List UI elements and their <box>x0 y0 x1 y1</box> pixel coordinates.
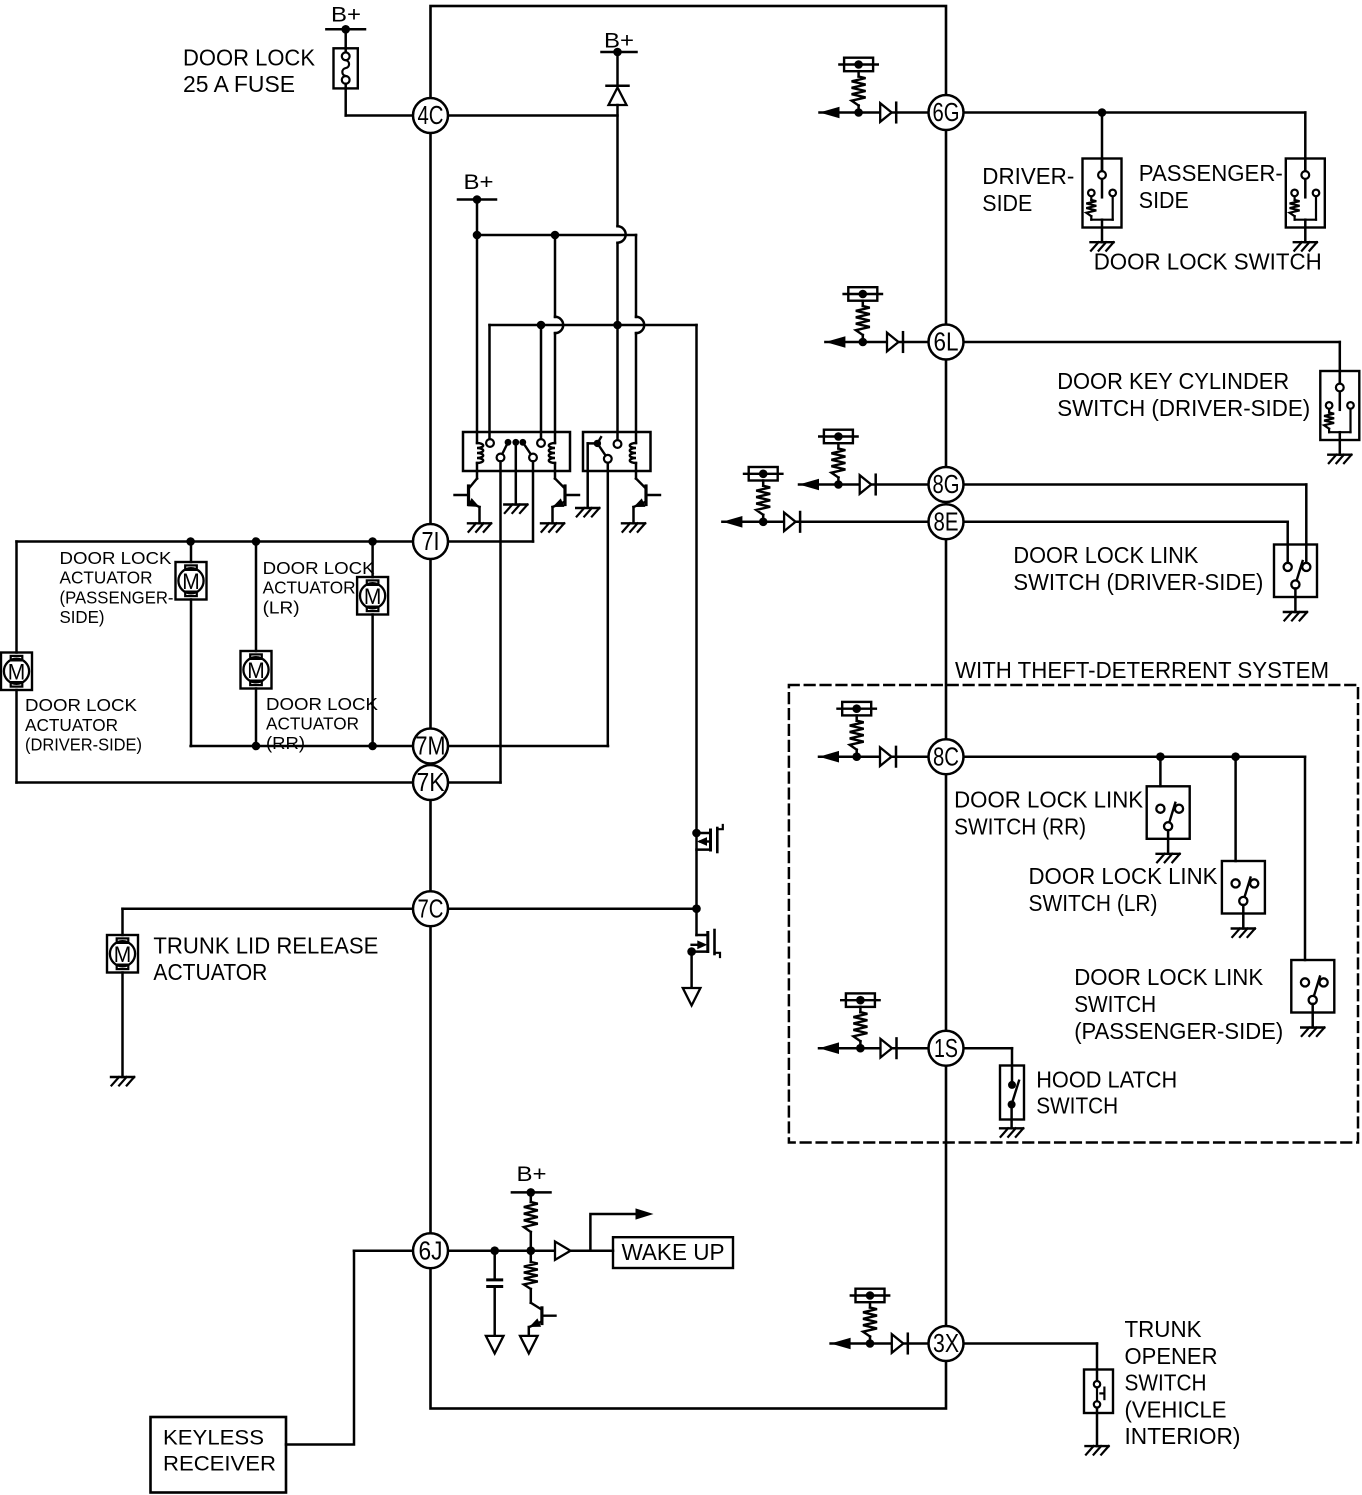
svg-text:ACTUATOR: ACTUATOR <box>153 959 267 985</box>
svg-text:M: M <box>182 569 200 594</box>
svg-text:DOOR LOCK: DOOR LOCK <box>60 548 172 568</box>
svg-text:SIDE: SIDE <box>1139 187 1189 213</box>
svg-text:TRUNK: TRUNK <box>1125 1316 1202 1342</box>
svg-text:DRIVER-: DRIVER- <box>982 163 1074 189</box>
svg-text:SWITCH: SWITCH <box>1125 1370 1207 1396</box>
svg-text:ACTUATOR: ACTUATOR <box>60 568 153 588</box>
svg-text:7M: 7M <box>416 731 446 761</box>
svg-text:INTERIOR): INTERIOR) <box>1125 1423 1241 1449</box>
svg-text:SIDE: SIDE <box>982 190 1032 216</box>
svg-text:DOOR LOCK: DOOR LOCK <box>25 695 137 715</box>
svg-text:25 A FUSE: 25 A FUSE <box>183 71 295 97</box>
svg-text:(DRIVER-SIDE): (DRIVER-SIDE) <box>25 735 142 755</box>
svg-text:DOOR LOCK LINK: DOOR LOCK LINK <box>1029 863 1218 889</box>
svg-text:SWITCH: SWITCH <box>1074 991 1156 1017</box>
svg-text:8G: 8G <box>933 469 960 499</box>
svg-text:M: M <box>364 584 382 609</box>
svg-text:ACTUATOR: ACTUATOR <box>25 715 118 735</box>
svg-text:SWITCH: SWITCH <box>1036 1093 1118 1119</box>
svg-text:(PASSENGER-: (PASSENGER- <box>60 587 174 607</box>
svg-text:1S: 1S <box>934 1033 958 1063</box>
svg-text:SWITCH (DRIVER-SIDE): SWITCH (DRIVER-SIDE) <box>1013 569 1263 595</box>
svg-text:WITH THEFT-DETERRENT SYSTEM: WITH THEFT-DETERRENT SYSTEM <box>955 657 1329 683</box>
svg-text:DOOR KEY CYLINDER: DOOR KEY CYLINDER <box>1057 368 1289 394</box>
svg-text:KEYLESS: KEYLESS <box>163 1427 264 1450</box>
svg-text:WAKE UP: WAKE UP <box>622 1239 725 1265</box>
svg-text:SWITCH (LR): SWITCH (LR) <box>1029 890 1158 916</box>
svg-text:(RR): (RR) <box>266 733 305 753</box>
svg-text:M: M <box>114 942 132 967</box>
svg-text:3X: 3X <box>933 1328 959 1358</box>
svg-text:ACTUATOR: ACTUATOR <box>263 578 356 598</box>
svg-text:8C: 8C <box>933 741 959 771</box>
svg-text:HOOD LATCH: HOOD LATCH <box>1036 1067 1177 1093</box>
svg-text:DOOR LOCK LINK: DOOR LOCK LINK <box>1013 542 1198 568</box>
svg-text:6J: 6J <box>419 1235 443 1265</box>
svg-text:6G: 6G <box>933 97 960 127</box>
svg-text:DOOR LOCK LINK: DOOR LOCK LINK <box>954 787 1143 813</box>
svg-text:RECEIVER: RECEIVER <box>163 1453 276 1476</box>
svg-text:SWITCH (DRIVER-SIDE): SWITCH (DRIVER-SIDE) <box>1057 395 1310 421</box>
svg-text:PASSENGER-: PASSENGER- <box>1139 160 1283 186</box>
svg-text:B+: B+ <box>517 1163 547 1186</box>
svg-text:7K: 7K <box>417 767 446 797</box>
svg-text:DOOR LOCK: DOOR LOCK <box>266 694 378 714</box>
svg-text:(LR): (LR) <box>263 597 300 617</box>
svg-text:SWITCH (RR): SWITCH (RR) <box>954 814 1086 840</box>
svg-text:DOOR LOCK SWITCH: DOOR LOCK SWITCH <box>1094 249 1322 275</box>
svg-text:DOOR LOCK: DOOR LOCK <box>183 45 315 71</box>
svg-text:OPENER: OPENER <box>1125 1343 1218 1369</box>
svg-text:B+: B+ <box>464 171 494 194</box>
svg-text:M: M <box>8 659 26 684</box>
svg-text:DOOR LOCK LINK: DOOR LOCK LINK <box>1074 964 1263 990</box>
svg-text:ACTUATOR: ACTUATOR <box>266 714 359 734</box>
svg-text:6L: 6L <box>934 327 959 357</box>
svg-text:7I: 7I <box>422 526 440 556</box>
svg-text:7C: 7C <box>418 893 444 923</box>
svg-text:TRUNK LID RELEASE: TRUNK LID RELEASE <box>153 933 378 959</box>
svg-text:M: M <box>247 658 265 683</box>
svg-text:(PASSENGER-SIDE): (PASSENGER-SIDE) <box>1074 1018 1283 1044</box>
svg-text:B+: B+ <box>331 4 361 27</box>
svg-text:SIDE): SIDE) <box>60 607 105 627</box>
svg-text:(VEHICLE: (VEHICLE <box>1125 1396 1227 1422</box>
svg-text:4C: 4C <box>418 100 444 130</box>
svg-text:8E: 8E <box>934 506 959 536</box>
svg-text:DOOR LOCK: DOOR LOCK <box>263 558 375 578</box>
